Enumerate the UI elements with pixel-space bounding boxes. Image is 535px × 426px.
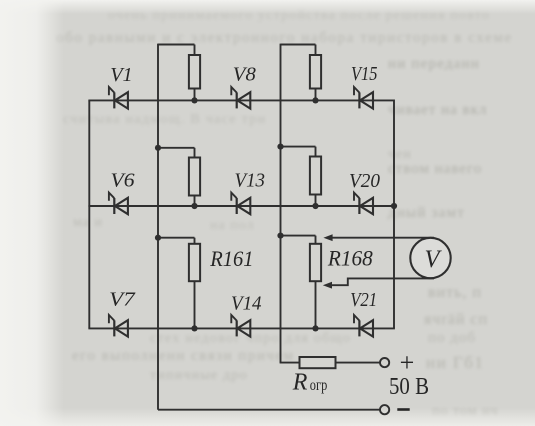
label minus sign	[397, 408, 409, 411]
resistor R168	[310, 236, 321, 329]
terminal - (minus)	[380, 405, 389, 414]
thyristor V20	[354, 193, 373, 215]
wire voltmeter top tap with arrow	[323, 234, 434, 241]
thyristor V7	[109, 315, 128, 337]
svg-text:R168: R168	[327, 246, 373, 271]
resistor Rogr (limiting)	[280, 357, 380, 368]
svg-text:V8: V8	[233, 64, 257, 86]
junction dot	[312, 97, 318, 103]
resistor R161	[189, 238, 200, 329]
junction dot	[191, 203, 197, 209]
svg-text:V13: V13	[235, 170, 266, 192]
junction dot	[155, 145, 161, 151]
terminal + (plus)	[380, 358, 389, 367]
svg-text:V1: V1	[110, 64, 133, 86]
wire cell B2 top	[281, 146, 316, 148]
junction dot	[312, 203, 318, 209]
wire row 1 (anode bus A)	[88, 99, 394, 101]
resistor R row1 right	[310, 45, 321, 101]
wire cell B3 top	[281, 235, 316, 237]
junction dot	[277, 144, 283, 150]
svg-text:V15: V15	[351, 63, 378, 85]
wire cell A1 top	[158, 44, 195, 46]
thyristor V14	[231, 315, 250, 337]
wire minus line	[158, 409, 380, 411]
thyristor V13	[231, 193, 250, 215]
svg-text:V21: V21	[350, 289, 377, 311]
wire left bus	[88, 100, 90, 328]
svg-text:огр: огр	[310, 377, 328, 394]
label Rogr	[292, 370, 328, 396]
wire voltmeter bottom tap with arrow	[323, 278, 434, 288]
junction dot	[155, 235, 161, 241]
wire cell A3 top	[158, 237, 195, 239]
resistor R row2 right	[310, 147, 321, 206]
junction dot	[277, 233, 283, 239]
wire row 2 (anode bus B)	[88, 205, 394, 207]
resistor R row2 left	[189, 148, 200, 206]
svg-text:50 В: 50 В	[389, 374, 429, 400]
wire riser 1 (left gate bus)	[157, 44, 159, 410]
svg-text:V14: V14	[231, 293, 262, 315]
thyristor V15	[354, 87, 373, 109]
resistor R row1 left	[189, 45, 200, 101]
thyristor V8	[231, 87, 250, 109]
junction dot	[391, 203, 397, 209]
svg-text:V20: V20	[349, 170, 380, 192]
svg-text:R: R	[292, 370, 308, 396]
wire row 3 (anode bus C)	[88, 327, 395, 329]
junction dot	[191, 97, 197, 103]
svg-text:V7: V7	[109, 289, 135, 311]
thyristor V1	[109, 87, 128, 109]
wire right bus	[393, 100, 395, 329]
thyristor V6	[109, 193, 128, 215]
svg-text:+: +	[400, 348, 415, 377]
wire cell B1 top	[281, 44, 316, 46]
svg-text:V6: V6	[111, 170, 136, 192]
svg-text:R161: R161	[209, 246, 253, 271]
wire cell A2 top	[158, 147, 195, 149]
voltmeter PV (V)	[410, 238, 450, 278]
junction dot	[191, 325, 197, 331]
junction dot	[312, 325, 318, 331]
thyristor V21	[354, 315, 373, 337]
wire riser 2 (right gate bus)	[280, 44, 282, 363]
